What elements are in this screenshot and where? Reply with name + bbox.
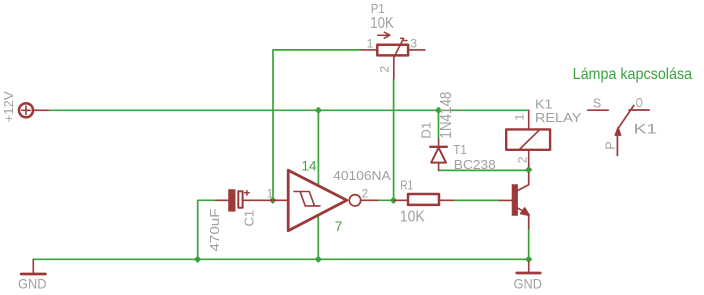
- svg-text:470uF: 470uF: [207, 208, 222, 251]
- junction node on ground rail at IC pin7: [315, 256, 322, 263]
- ground GND right: [517, 262, 540, 274]
- junction node on +12V rail at D1 branch: [435, 107, 442, 114]
- svg-text:1N4148: 1N4148: [438, 92, 455, 139]
- svg-text:GND: GND: [18, 276, 47, 292]
- svg-text:C1: C1: [242, 210, 257, 227]
- svg-text:GND: GND: [514, 276, 543, 292]
- op-amp U1 schmitt inverter 40106: [288, 170, 378, 231]
- svg-text:2: 2: [378, 66, 392, 73]
- svg-text:10K: 10K: [400, 208, 426, 225]
- resistor R1: [394, 194, 454, 205]
- junction node on ground rail at emitter / GND: [525, 256, 532, 263]
- wire top feedback loop from input node up and right to P1 pin 1: [273, 50, 362, 200]
- wire IC pin 7 to ground rail: [317, 215, 319, 259]
- svg-text:1: 1: [367, 37, 374, 51]
- svg-text:P1: P1: [371, 1, 385, 16]
- wire C1 left plate to ground rail: [198, 200, 216, 259]
- svg-text:RELAY: RELAY: [535, 110, 582, 125]
- wire P1 wiper down to output node: [393, 79, 395, 200]
- junction node on +12V rail at IC pin14: [315, 107, 322, 114]
- svg-text:10K: 10K: [370, 15, 394, 32]
- relay coil K1: [506, 110, 550, 166]
- svg-text:T1: T1: [453, 142, 467, 157]
- wire R1 to transistor base: [453, 199, 500, 201]
- svg-text:40106NA: 40106NA: [333, 168, 391, 183]
- svg-text:R1: R1: [400, 177, 413, 192]
- diode D1: [430, 140, 447, 170]
- +12V supply symbol: [19, 103, 48, 117]
- relay contact K1 switch: [588, 105, 650, 155]
- svg-text:BC238: BC238: [454, 157, 496, 172]
- svg-text:3: 3: [410, 36, 417, 50]
- junction node at inverter input / C1 / feedback: [269, 197, 276, 204]
- wire inverter output to R1: [378, 199, 395, 201]
- wire relay pin2 to collector node: [528, 166, 530, 173]
- svg-text:D1: D1: [419, 122, 434, 139]
- wire emitter down to ground rail: [528, 229, 530, 260]
- svg-text:S: S: [593, 97, 601, 111]
- svg-text:P: P: [604, 141, 618, 149]
- transistor T1: [500, 173, 530, 229]
- potentiometer P1: [362, 32, 425, 79]
- ground GND left: [21, 259, 45, 274]
- junction node at inverter output / wiper / R1: [390, 197, 397, 204]
- svg-text:2: 2: [362, 186, 369, 200]
- junction node on ground rail below C1: [194, 256, 201, 263]
- svg-text:1: 1: [267, 186, 274, 200]
- svg-text:Lámpa kapcsolása: Lámpa kapcsolása: [573, 66, 693, 83]
- svg-text:14: 14: [302, 158, 317, 173]
- wire ground rail: [33, 258, 528, 260]
- wire +12V rail down to diode D1 cathode: [438, 111, 440, 140]
- svg-text:2: 2: [515, 156, 529, 163]
- wire IC pin 14 to +12V rail: [317, 110, 319, 186]
- svg-text:+12V: +12V: [1, 91, 16, 122]
- wire diode anode to collector node: [439, 169, 529, 171]
- wire +12V rail: [48, 109, 529, 111]
- svg-text:O: O: [636, 96, 643, 110]
- svg-text:7: 7: [335, 219, 343, 234]
- capacitor C1: [216, 190, 289, 211]
- svg-text:1: 1: [513, 114, 527, 121]
- junction node at relay pin2 / diode / collector: [525, 166, 532, 173]
- svg-text:K1: K1: [634, 121, 658, 137]
